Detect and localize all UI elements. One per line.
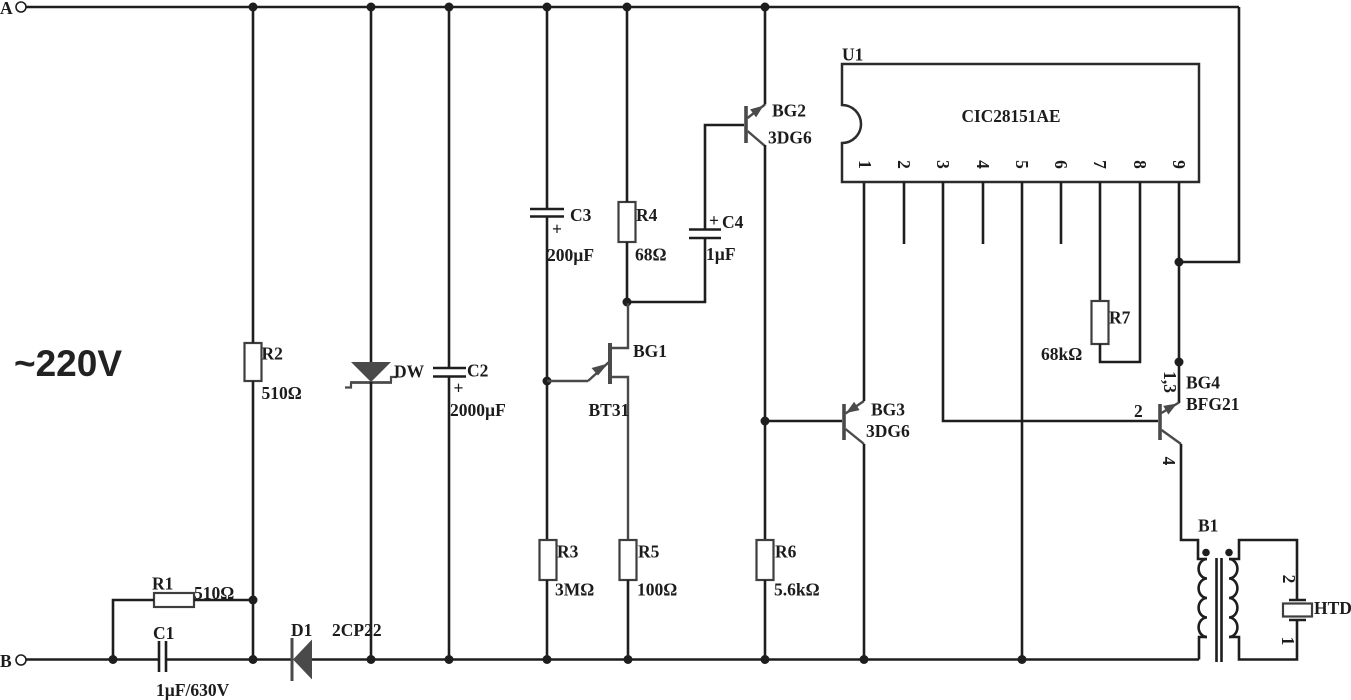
svg-text:9: 9 — [1169, 160, 1189, 169]
node B terminal — [0, 651, 26, 671]
junction R1 right to R2 line — [249, 596, 258, 605]
svg-text:8: 8 — [1130, 160, 1150, 169]
resistor R1 — [152, 574, 234, 608]
wire BG3 base — [765, 420, 842, 423]
junction pin 5 bottom rail — [1018, 655, 1027, 664]
wire primary bottom to rail — [1199, 637, 1207, 660]
svg-text:200µF: 200µF — [547, 245, 594, 265]
wire pin 7 lead — [1099, 182, 1102, 301]
wire BG3 emitter to U1 pin 1 — [863, 182, 866, 401]
svg-text:2: 2 — [894, 160, 914, 169]
svg-text:7: 7 — [1090, 160, 1110, 169]
svg-text:+: + — [709, 211, 719, 231]
wire R1 right lead — [194, 599, 253, 602]
svg-text:~220V: ~220V — [14, 343, 122, 384]
wire DW bottom lead — [370, 382, 373, 660]
svg-text:BG4: BG4 — [1186, 373, 1220, 393]
svg-text:R2: R2 — [262, 344, 283, 364]
junction R2 bottom rail — [249, 655, 258, 664]
transistor BG4 BFG21 — [1134, 371, 1239, 466]
wire R2 bottom lead — [252, 381, 255, 660]
junction R4/C4/BG1 node — [623, 298, 632, 307]
op-amp U1 CIC28151AE body — [842, 45, 1199, 183]
svg-text:C2: C2 — [467, 361, 488, 381]
wire DW top lead — [370, 7, 373, 362]
transformer B1 secondary winding — [1229, 559, 1237, 637]
junction BG1 emitter node — [543, 377, 552, 386]
node A terminal — [0, 0, 26, 18]
unijunction transistor BG1 BT31 — [547, 302, 667, 540]
svg-text:C4: C4 — [722, 212, 744, 232]
svg-text:1µF: 1µF — [706, 244, 736, 264]
svg-text:R5: R5 — [638, 542, 660, 562]
resistor R7 — [1041, 301, 1131, 364]
junction BG2 collector / BG3 base — [761, 417, 770, 426]
svg-text:68Ω: 68Ω — [635, 245, 667, 265]
svg-text:C1: C1 — [153, 623, 174, 643]
buzzer HTD — [1283, 598, 1351, 620]
svg-text:R4: R4 — [636, 205, 658, 225]
wire C4 bottom lead to node — [627, 238, 705, 302]
svg-text:3MΩ: 3MΩ — [555, 580, 594, 600]
svg-text:2000µF: 2000µF — [450, 400, 506, 420]
svg-text:C3: C3 — [570, 205, 592, 225]
wire R6 bottom lead — [764, 580, 767, 660]
capacitor C1 — [153, 623, 230, 700]
resistor R6 — [757, 540, 820, 600]
wire R5 bottom lead — [627, 580, 630, 660]
wire C2 top lead — [448, 7, 451, 368]
wire top rail A — [27, 6, 1240, 9]
junction R5 bottom rail — [624, 655, 633, 664]
svg-text:1: 1 — [855, 160, 875, 169]
junction R6 bottom rail — [761, 655, 770, 664]
wire bottom rail B middle — [166, 658, 291, 661]
transformer B1 primary winding — [1198, 516, 1218, 638]
svg-text:BT31: BT31 — [589, 400, 630, 420]
svg-text:+: + — [552, 219, 562, 239]
junction C3 top rail — [543, 3, 552, 12]
transformer primary phase dot — [1202, 549, 1210, 557]
junction on BG4 collector line — [1175, 358, 1184, 367]
svg-text:B: B — [0, 651, 12, 671]
svg-text:D1: D1 — [291, 620, 312, 640]
junction BG3 bottom rail — [860, 655, 869, 664]
transistor BG3 3DG6 — [844, 400, 910, 445]
wire C3 bottom lead — [546, 217, 549, 541]
resistor R4 — [619, 202, 667, 265]
capacitor C2 — [433, 361, 506, 421]
svg-text:B1: B1 — [1198, 516, 1218, 536]
svg-text:5: 5 — [1012, 160, 1032, 169]
wire pin 6 stub — [1060, 182, 1063, 244]
wire pin 3 to BG4 base — [943, 182, 1158, 421]
svg-text:3DG6: 3DG6 — [866, 421, 910, 441]
wire pin 5 to bottom rail — [1021, 182, 1024, 660]
svg-text:BFG21: BFG21 — [1186, 394, 1239, 414]
svg-text:2CP22: 2CP22 — [332, 620, 382, 640]
wire C4 top lead to BG2 base — [705, 125, 744, 230]
wire C2 bottom lead — [448, 377, 451, 660]
svg-text:BG2: BG2 — [772, 101, 806, 121]
svg-text:1: 1 — [1278, 637, 1298, 646]
svg-text:A: A — [0, 0, 13, 18]
svg-text:1,3: 1,3 — [1160, 371, 1180, 393]
svg-text:510Ω: 510Ω — [262, 383, 302, 403]
transformer B1 core — [1217, 558, 1222, 662]
junction DW bottom rail — [367, 655, 376, 664]
junction R1 left on rail B — [109, 655, 118, 664]
junction R3 bottom rail — [543, 655, 552, 664]
wire R4 top lead — [626, 7, 629, 202]
svg-text:BG1: BG1 — [633, 341, 667, 361]
svg-text:+: + — [454, 378, 464, 398]
wire R3 bottom lead — [546, 580, 549, 660]
svg-text:3DG6: 3DG6 — [768, 128, 812, 148]
svg-text:R3: R3 — [557, 542, 579, 562]
transistor BG2 3DG6 — [746, 101, 812, 148]
svg-text:R1: R1 — [152, 574, 173, 594]
junction pin 9 / top rail return — [1175, 258, 1184, 267]
wire R2 top lead — [252, 7, 255, 343]
capacitor C4 — [689, 211, 744, 265]
wire C3 top lead — [546, 7, 549, 209]
svg-text:HTD: HTD — [1314, 598, 1351, 618]
svg-text:BG3: BG3 — [871, 400, 905, 420]
resistor R5 — [620, 540, 678, 600]
wire pin 4 stub — [982, 182, 985, 244]
wire pin 9 down to BG4 collector — [1178, 182, 1181, 403]
diode D1 — [291, 620, 382, 681]
junction BG2 top rail — [761, 3, 770, 12]
transformer secondary phase dot — [1225, 549, 1233, 557]
svg-text:DW: DW — [394, 362, 425, 382]
svg-text:U1: U1 — [842, 45, 863, 65]
wire BG2 emitter to top rail — [764, 7, 767, 105]
junction R2 top rail — [249, 3, 258, 12]
svg-text:2: 2 — [1134, 401, 1143, 421]
junction R4 top rail — [623, 3, 632, 12]
wire R4 bottom lead — [626, 242, 629, 302]
svg-text:5.6kΩ: 5.6kΩ — [774, 580, 820, 600]
junction DW top rail — [367, 3, 376, 12]
svg-text:1µF/630V: 1µF/630V — [156, 680, 230, 700]
svg-text:68kΩ: 68kΩ — [1041, 344, 1082, 364]
junction C2 bottom rail — [445, 655, 454, 664]
svg-text:4: 4 — [1159, 457, 1179, 466]
capacitor C3 — [530, 205, 594, 265]
zener diode DW — [345, 362, 425, 388]
svg-text:6: 6 — [1051, 160, 1071, 169]
svg-text:3: 3 — [933, 160, 953, 169]
svg-text:CIC28151AE: CIC28151AE — [962, 106, 1061, 126]
wire HTD bottom to secondary bottom — [1229, 620, 1297, 660]
wire BG2 collector down — [764, 145, 767, 540]
wire R7 bottom to pin 8 — [1100, 182, 1140, 362]
wire right drop from top rail — [1179, 7, 1239, 262]
wire BG3 collector down — [863, 444, 866, 660]
wire R1 left lead — [113, 600, 154, 660]
resistor R3 — [540, 540, 595, 600]
wire bottom rail B left — [27, 658, 160, 661]
wire BG4 emitter to transformer primary — [1181, 444, 1207, 559]
wire pin 2 stub — [903, 182, 906, 244]
svg-text:4: 4 — [973, 160, 993, 169]
svg-text:R6: R6 — [775, 542, 797, 562]
junction C2 top rail — [445, 3, 454, 12]
svg-text:R7: R7 — [1109, 308, 1131, 328]
svg-text:2: 2 — [1279, 575, 1299, 584]
resistor R2 — [245, 343, 302, 403]
wire bottom rail B right — [312, 658, 1199, 661]
wire secondary top to HTD — [1229, 540, 1297, 599]
svg-text:100Ω: 100Ω — [637, 580, 677, 600]
